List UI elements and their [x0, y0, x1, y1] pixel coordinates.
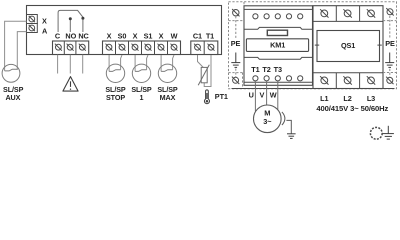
ground symbol (right PE): [385, 53, 394, 68]
QS1 bottom terminal row: [313, 73, 383, 89]
potentiometer SL/SP MAX: [158, 64, 176, 82]
potentiometer SL/SP AUX: [2, 64, 20, 82]
svg-text:400/415V 3~ 50/60Hz: 400/415V 3~ 50/60Hz: [316, 104, 388, 113]
motor M 3~: [253, 105, 281, 133]
svg-text:L1: L1: [320, 94, 328, 103]
svg-text:T2: T2: [262, 65, 270, 74]
changeover switch C-NO-NC: [58, 10, 84, 32]
svg-text:X: X: [107, 32, 112, 41]
wire from NO: [69, 55, 71, 74]
wire S1 to 1 pot: [147, 55, 148, 70]
terminal X: [27, 15, 38, 24]
wire S0 to STOP pot: [121, 55, 122, 70]
PE screw terminal (right, lower): [386, 77, 393, 84]
ground symbol (bottom right): [383, 126, 394, 139]
thermistor body: [198, 65, 209, 86]
svg-text:U: U: [249, 90, 254, 99]
thermometer icon: [204, 90, 209, 104]
svg-text:L3: L3: [367, 94, 375, 103]
terminal block X S0 X S1 X W: [103, 41, 181, 55]
wire T2 to motor (V): [266, 81, 268, 105]
label SL/SP MAX: [157, 85, 178, 102]
QS1 terminal L2 bottom: [343, 76, 351, 84]
wire T1 to motor (U): [254, 81, 256, 111]
svg-text:A: A: [42, 26, 48, 35]
svg-text:S0: S0: [118, 32, 127, 41]
controller terminal box: [27, 6, 222, 55]
KM1 top terminal row separator: [244, 8, 313, 10]
KM1 bottom terminal cover line: [244, 81, 313, 83]
QS1 body box: [315, 31, 382, 62]
disconnect switch QS1 outer box: [313, 6, 383, 89]
svg-text:3~: 3~: [263, 117, 271, 126]
wire from C: [57, 55, 59, 74]
KM1 top terminals (5 circles): [253, 14, 303, 19]
wire PE dashed (left, lower): [235, 69, 237, 78]
svg-text:C: C: [55, 32, 61, 41]
QS1 terminal L1 top: [320, 9, 328, 17]
QS1 terminal L1 bottom: [320, 76, 328, 84]
wire A to AUX pot: [17, 32, 26, 70]
wire X to MAX pot: [160, 55, 162, 71]
terminal block C1 T1: [191, 41, 218, 55]
wire PE dashed (left, upper): [235, 16, 237, 38]
knockout earth point: [370, 127, 382, 139]
wire X to STOP pot: [108, 55, 110, 71]
svg-text:AUX: AUX: [5, 93, 20, 102]
svg-text:1: 1: [140, 93, 144, 102]
KM1 bottom mounting profile: [244, 57, 313, 59]
svg-text:X: X: [42, 17, 47, 26]
wire X to 1 pot: [134, 55, 136, 71]
svg-text:NO: NO: [65, 32, 76, 41]
PE screw terminal (left, lower): [229, 73, 243, 89]
PE terminal compartment (right): [383, 8, 397, 72]
potentiometer SL/SP 1: [132, 64, 150, 82]
wire PE dashed (right, lower): [389, 69, 391, 78]
svg-text:L2: L2: [343, 94, 351, 103]
KM1 contact window: [267, 30, 287, 35]
svg-text:QS1: QS1: [341, 41, 355, 50]
terminal A: [27, 24, 38, 33]
KM1 bottom terminals (5 circles): [253, 76, 303, 81]
KM1 coil box: [246, 39, 308, 52]
svg-text:STOP: STOP: [106, 93, 125, 102]
wire T1 to thermistor: [204, 55, 211, 87]
svg-text:W: W: [171, 32, 178, 41]
base line under blocks: [232, 88, 395, 90]
label SL/SP AUX: [3, 85, 24, 102]
svg-text:T1: T1: [206, 32, 214, 41]
contactor KM1 outer box: [244, 6, 313, 86]
svg-text:NC: NC: [78, 32, 89, 41]
ground symbol (motor): [287, 134, 296, 139]
wire from NC: [82, 55, 84, 74]
svg-text:T1: T1: [251, 65, 259, 74]
KM1 top mounting profile: [244, 27, 313, 29]
PE terminal compartment (left): [229, 2, 245, 21]
svg-text:C1: C1: [193, 32, 202, 41]
svg-text:PE: PE: [231, 39, 241, 48]
QS1 terminal L3 bottom: [367, 76, 375, 84]
svg-text:KM1: KM1: [270, 41, 285, 50]
svg-text:V: V: [260, 90, 265, 99]
warning triangle: [63, 77, 78, 92]
ground symbol (left PE): [231, 53, 240, 68]
svg-text:MAX: MAX: [160, 93, 176, 102]
wire C1 to thermistor: [198, 55, 204, 67]
svg-text:PE: PE: [385, 39, 395, 48]
wire X to AUX pot: [5, 21, 27, 71]
label SL/SP STOP: [105, 85, 126, 102]
svg-text:X: X: [133, 32, 138, 41]
wire PE dashed (right, upper): [389, 16, 391, 38]
svg-text:W: W: [270, 90, 277, 99]
label SL/SP 1: [131, 85, 152, 102]
wire motor PE: [286, 120, 291, 133]
QS1 top terminal row: [313, 6, 383, 22]
svg-text:T3: T3: [274, 65, 282, 74]
dashed enclosure (by others): [229, 2, 397, 89]
motor PE arc: [282, 112, 285, 125]
QS1 terminal L3 top: [367, 9, 375, 17]
wire W to MAX pot: [173, 55, 174, 70]
terminal block C NO NC: [53, 41, 89, 55]
wire T3 to motor (W): [277, 81, 279, 111]
QS1 terminal L2 top: [343, 9, 351, 17]
svg-text:PT1: PT1: [215, 92, 228, 101]
svg-text:X: X: [159, 32, 164, 41]
svg-text:S1: S1: [144, 32, 153, 41]
potentiometer SL/SP STOP: [106, 64, 124, 82]
